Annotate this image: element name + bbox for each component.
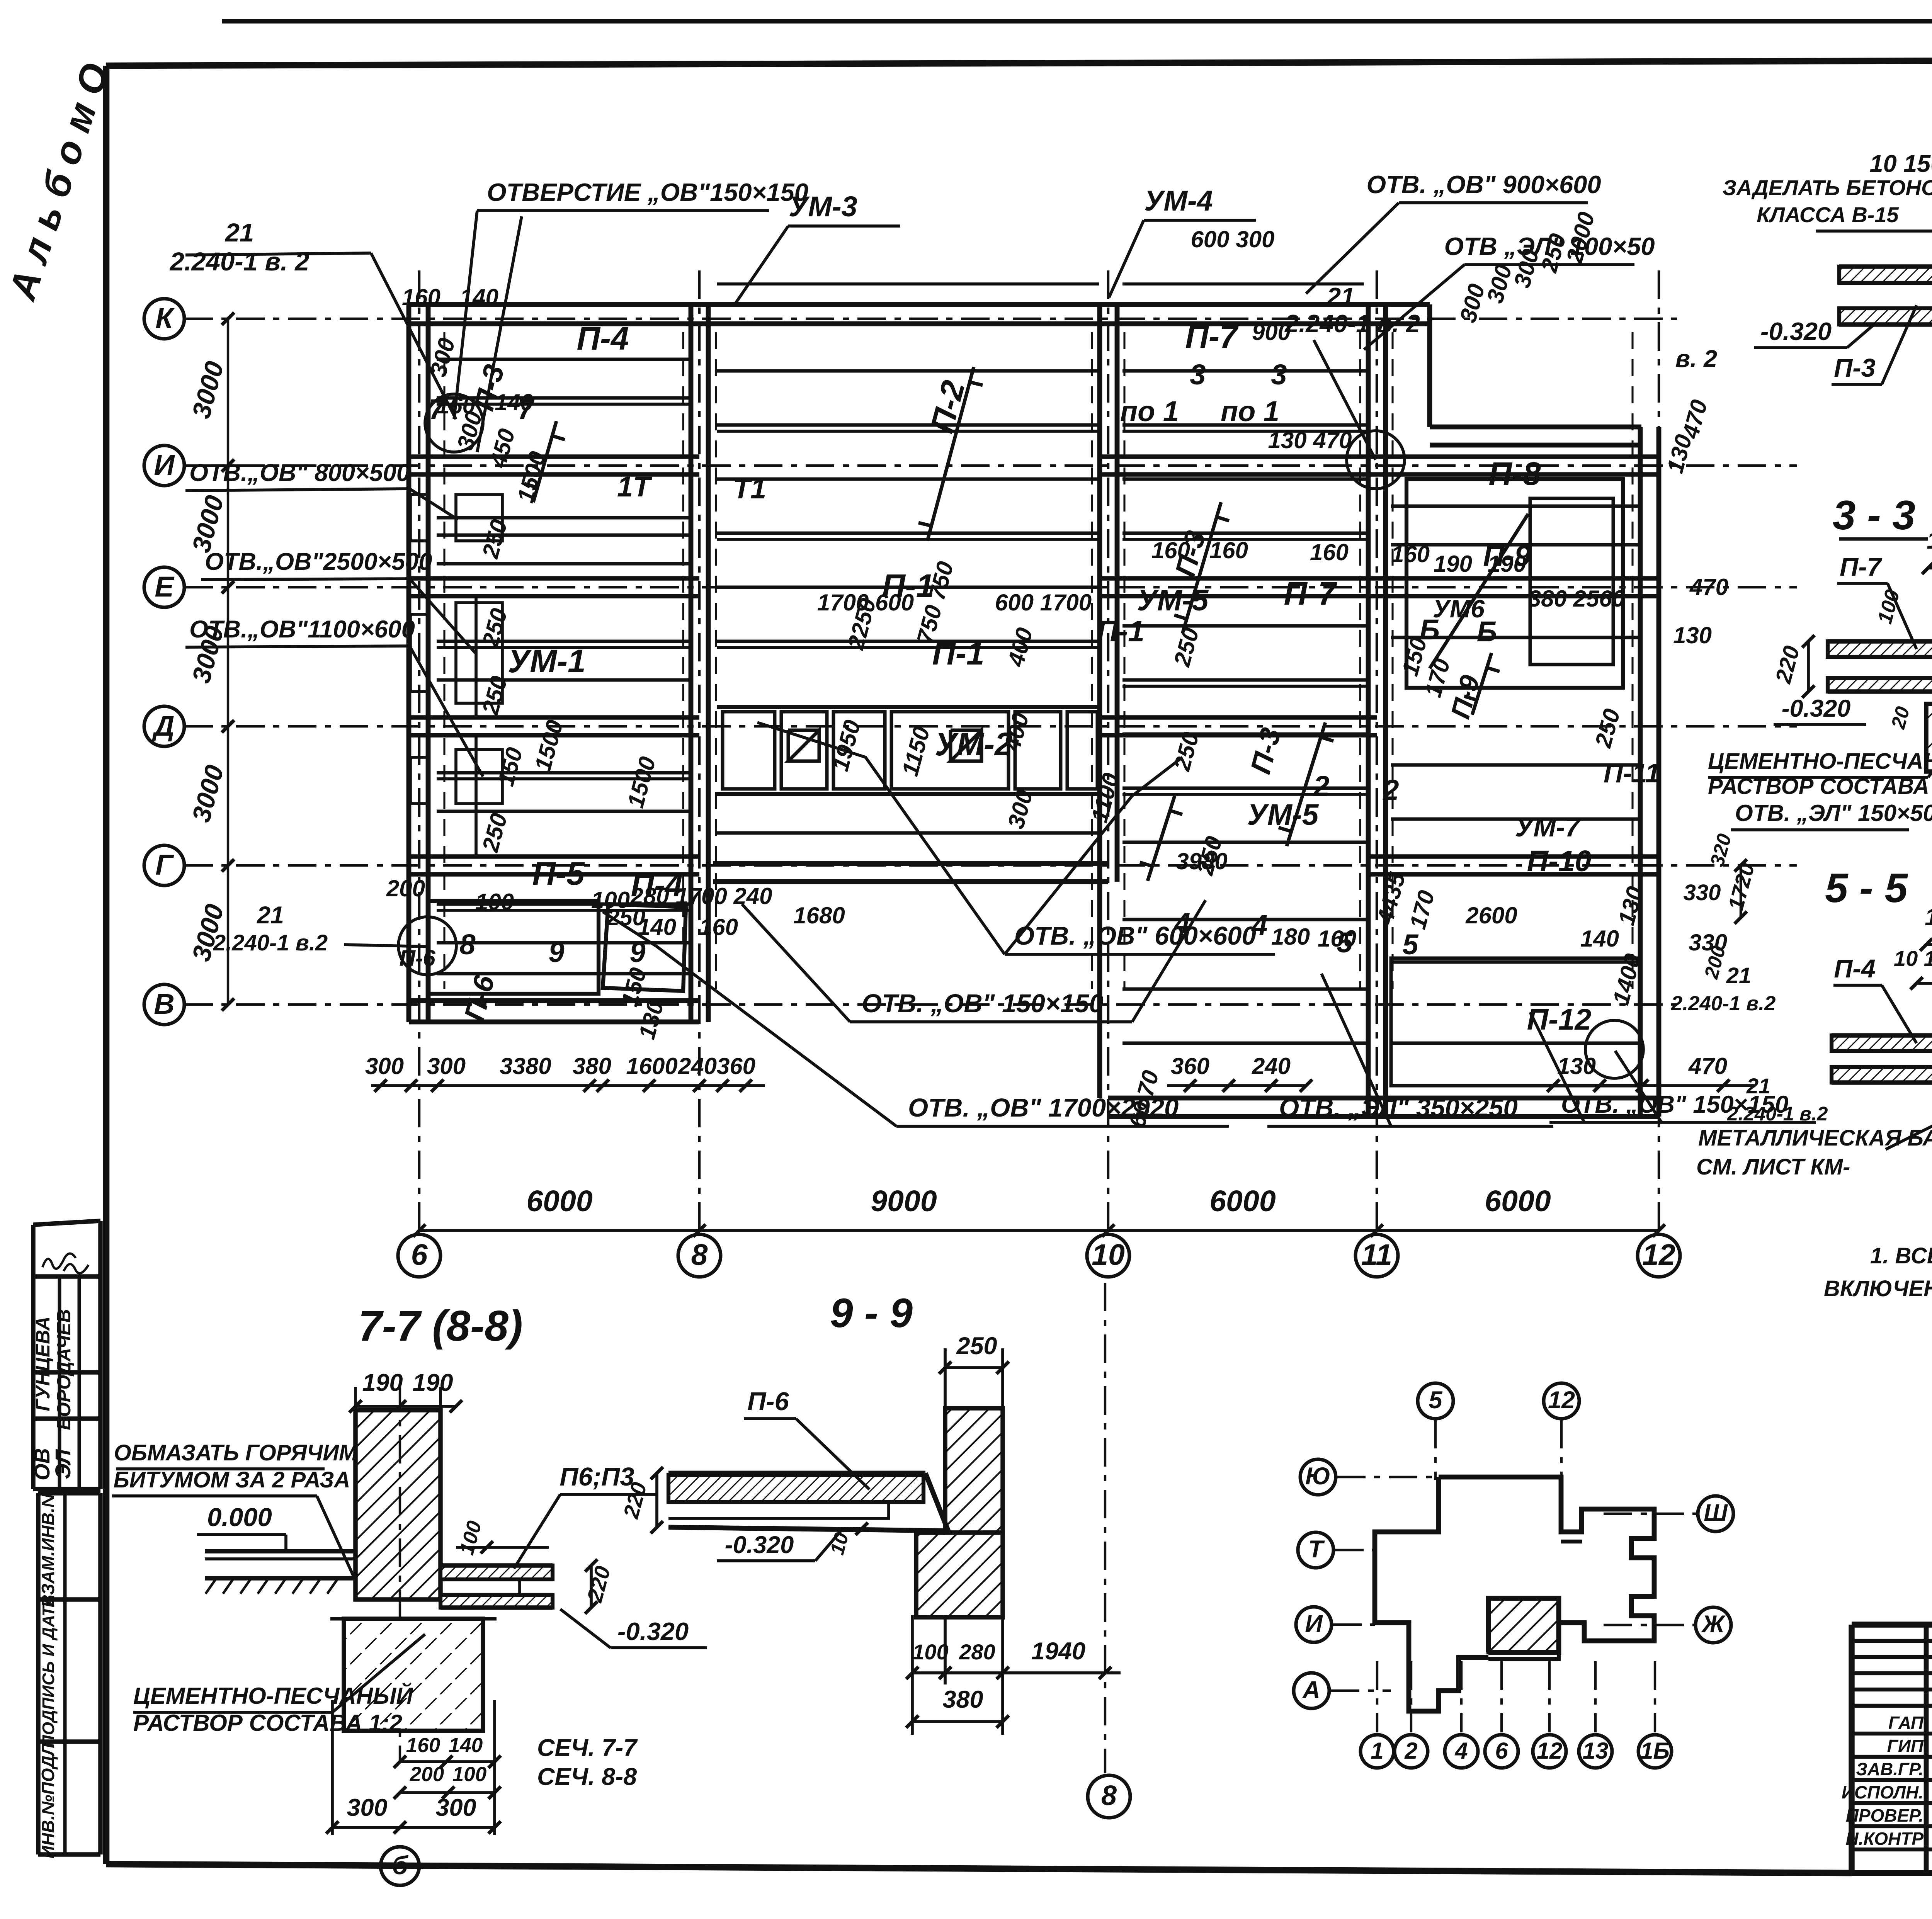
- svg-text:21: 21: [1326, 282, 1355, 311]
- svg-text:Д: Д: [151, 710, 174, 742]
- svg-text:5: 5: [1429, 1387, 1442, 1414]
- svg-text:9: 9: [548, 936, 564, 968]
- svg-text:7-7 (8-8): 7-7 (8-8): [358, 1302, 523, 1350]
- svg-text:160: 160: [1391, 541, 1430, 567]
- svg-text:ЭЛ: ЭЛ: [51, 1449, 75, 1479]
- svg-text:3: 3: [1271, 359, 1287, 391]
- svg-text:ОТВ. „ОВ" 150×150: ОТВ. „ОВ" 150×150: [862, 989, 1104, 1018]
- svg-text:140: 140: [449, 1734, 483, 1757]
- svg-text:УМ-4: УМ-4: [1144, 185, 1213, 217]
- svg-text:8: 8: [691, 1238, 708, 1271]
- svg-text:СЕЧ. 8-8: СЕЧ. 8-8: [537, 1763, 637, 1790]
- svg-text:21: 21: [257, 902, 284, 929]
- svg-text:ОТВ. „ЭЛ" 350×250: ОТВ. „ЭЛ" 350×250: [1279, 1093, 1518, 1122]
- svg-text:9: 9: [629, 936, 645, 968]
- svg-text:Ж: Ж: [1701, 1611, 1726, 1638]
- svg-text:8: 8: [1101, 1780, 1117, 1811]
- svg-text:3 - 3: 3 - 3: [1833, 492, 1915, 538]
- svg-text:П-1: П-1: [932, 635, 984, 671]
- svg-text:1940: 1940: [1031, 1638, 1085, 1665]
- svg-text:ПОДПИСЬ И ДАТА: ПОДПИСЬ И ДАТА: [39, 1594, 58, 1747]
- svg-text:100: 100: [475, 889, 514, 915]
- svg-text:ГИП: ГИП: [1887, 1736, 1924, 1756]
- svg-text:9000: 9000: [871, 1185, 937, 1218]
- svg-text:10 150 150 10: 10 150 150 10: [1894, 946, 1932, 971]
- svg-text:190: 190: [362, 1369, 403, 1396]
- svg-text:380 2560: 380 2560: [1528, 586, 1625, 612]
- svg-text:21: 21: [1746, 1074, 1770, 1098]
- svg-text:190 190: 190 190: [1927, 527, 1932, 554]
- svg-text:5: 5: [1402, 928, 1419, 960]
- svg-text:ОБМАЗАТЬ ГОРЯЧИМ: ОБМАЗАТЬ ГОРЯЧИМ: [114, 1440, 358, 1465]
- svg-text:2.240-1 в. 2: 2.240-1 в. 2: [1284, 309, 1420, 338]
- svg-text:6000: 6000: [1485, 1185, 1551, 1218]
- svg-text:1. ВСЕ ЭЛЕМЕНТЫ ЗАМАРКИРОВАН: 1. ВСЕ ЭЛЕМЕНТЫ ЗАМАРКИРОВАННЫЕ НА ДАННО…: [1870, 1243, 1932, 1268]
- svg-text:МЕТАЛЛИЧЕСКАЯ БАЛКА: МЕТАЛЛИЧЕСКАЯ БАЛКА: [1698, 1125, 1932, 1151]
- svg-text:ОТВ. „ОВ" 900×600: ОТВ. „ОВ" 900×600: [1366, 170, 1601, 199]
- svg-text:Б: Б: [1477, 615, 1497, 648]
- svg-text:190: 190: [412, 1369, 453, 1396]
- svg-text:ОТВЕРСТИЕ „ОВ"150×150: ОТВЕРСТИЕ „ОВ"150×150: [487, 178, 808, 206]
- svg-text:470: 470: [1689, 574, 1728, 600]
- svg-text:130: 130: [1673, 622, 1712, 648]
- svg-text:ОТВ.„ОВ" 800×500: ОТВ.„ОВ" 800×500: [189, 459, 410, 486]
- svg-text:10: 10: [1092, 1238, 1125, 1271]
- svg-text:П6;П3: П6;П3: [560, 1462, 634, 1491]
- svg-text:ОТВ. „ЭЛ" 150×50: ОТВ. „ЭЛ" 150×50: [1735, 800, 1932, 826]
- svg-text:160: 160: [1318, 926, 1356, 952]
- svg-text:Ю: Ю: [1305, 1463, 1331, 1490]
- svg-text:П-4: П-4: [1834, 954, 1876, 983]
- svg-text:2: 2: [1404, 1738, 1417, 1764]
- svg-text:Г: Г: [155, 849, 174, 881]
- svg-text:140: 140: [1580, 926, 1619, 952]
- svg-text:ПРОВЕР.: ПРОВЕР.: [1846, 1805, 1923, 1826]
- svg-text:6000: 6000: [526, 1185, 592, 1218]
- svg-text:П-7: П-7: [1185, 318, 1238, 355]
- svg-text:6: 6: [1495, 1738, 1508, 1764]
- svg-text:по 1: по 1: [1120, 395, 1179, 427]
- svg-text:12: 12: [1537, 1738, 1563, 1764]
- svg-text:ВЗАМ.ИНВ.№: ВЗАМ.ИНВ.№: [38, 1487, 58, 1607]
- svg-text:160: 160: [402, 284, 440, 310]
- svg-text:И: И: [1305, 1610, 1323, 1637]
- svg-text:А: А: [1302, 1676, 1320, 1703]
- svg-text:П-10: П-10: [1527, 845, 1592, 878]
- svg-text:2: 2: [1313, 770, 1329, 802]
- svg-text:200: 200: [410, 1763, 444, 1786]
- svg-text:2600: 2600: [1465, 903, 1517, 928]
- svg-text:240: 240: [1252, 1053, 1291, 1079]
- svg-text:0.000: 0.000: [207, 1503, 272, 1532]
- svg-text:УМ-3: УМ-3: [789, 190, 857, 223]
- svg-text:БОРОДАЧЕВ: БОРОДАЧЕВ: [54, 1309, 75, 1430]
- svg-text:УМ-5: УМ-5: [1137, 584, 1209, 617]
- svg-text:ИНВ.№ПОДЛ.: ИНВ.№ПОДЛ.: [38, 1739, 58, 1859]
- svg-text:1700 600: 1700 600: [817, 590, 914, 615]
- svg-text:БИТУМОМ ЗА 2 РАЗА: БИТУМОМ ЗА 2 РАЗА: [114, 1467, 350, 1492]
- svg-text:ЦЕМЕНТНО-ПЕСЧАНЫЙ: ЦЕМЕНТНО-ПЕСЧАНЫЙ: [133, 1683, 413, 1709]
- svg-text:ОТВ.„ОВ"2500×500: ОТВ.„ОВ"2500×500: [205, 548, 432, 575]
- svg-text:-0.320: -0.320: [725, 1531, 794, 1559]
- svg-text:190: 190: [1434, 551, 1472, 577]
- svg-text:ЗАДЕЛАТЬ БЕТОНОМ: ЗАДЕЛАТЬ БЕТОНОМ: [1723, 175, 1932, 200]
- svg-text:300: 300: [427, 1053, 466, 1079]
- svg-text:РАСТВОР СОСТАВА 1:2: РАСТВОР СОСТАВА 1:2: [133, 1710, 402, 1736]
- svg-text:600 1700: 600 1700: [995, 590, 1092, 615]
- svg-text:2: 2: [1382, 774, 1399, 806]
- svg-text:СЕЧ. 7-7: СЕЧ. 7-7: [537, 1734, 638, 1761]
- svg-text:П-7: П-7: [1840, 552, 1883, 581]
- svg-text:1Б: 1Б: [1640, 1738, 1670, 1764]
- svg-text:ОТВ.„ОВ"1100×600: ОТВ.„ОВ"1100×600: [189, 616, 415, 643]
- svg-text:П-7: П-7: [1284, 575, 1337, 612]
- svg-text:УМ-1: УМ-1: [508, 643, 586, 679]
- svg-text:4: 4: [1454, 1738, 1468, 1764]
- svg-text:КЛАССА В-15: КЛАССА В-15: [1757, 202, 1899, 227]
- svg-text:100: 100: [912, 1640, 948, 1664]
- svg-text:9 - 9: 9 - 9: [830, 1290, 913, 1336]
- svg-text:ГУНЦЕВА: ГУНЦЕВА: [32, 1316, 54, 1411]
- svg-text:1600: 1600: [626, 1053, 677, 1079]
- svg-text:ЗАВ.ГР.: ЗАВ.ГР.: [1856, 1759, 1923, 1779]
- svg-text:100: 100: [591, 887, 630, 913]
- svg-text:ВКЛЮЧЕНЫ В СПЕЦИФИКАЦИЮ НА: ВКЛЮЧЕНЫ В СПЕЦИФИКАЦИЮ НА ЛИСТЕ КЖО-31: [1824, 1276, 1932, 1301]
- svg-text:ОТВ. „ОВ" 1700×2920: ОТВ. „ОВ" 1700×2920: [908, 1093, 1179, 1122]
- svg-text:УМ-7: УМ-7: [1515, 812, 1581, 842]
- svg-text:ОТВ. „ОВ" 600×600: ОТВ. „ОВ" 600×600: [1014, 921, 1256, 950]
- svg-text:П-8: П-8: [1488, 456, 1541, 492]
- svg-text:в. 2: в. 2: [1675, 345, 1717, 372]
- svg-text:21: 21: [1726, 963, 1752, 988]
- svg-text:6: 6: [411, 1238, 428, 1271]
- svg-text:1680: 1680: [793, 903, 845, 928]
- svg-text:СМ. ЛИСТ КМ-: СМ. ЛИСТ КМ-: [1696, 1154, 1850, 1180]
- svg-text:П-3: П-3: [1834, 354, 1876, 382]
- svg-text:3980: 3980: [1176, 848, 1227, 874]
- svg-text:360: 360: [1171, 1053, 1209, 1079]
- svg-text:Ш: Ш: [1704, 1499, 1728, 1526]
- svg-text:П-6: П-6: [747, 1387, 789, 1416]
- svg-text:380: 380: [942, 1686, 983, 1713]
- svg-text:160: 160: [1209, 537, 1248, 563]
- svg-text:П-6: П-6: [399, 946, 435, 971]
- svg-text:Т: Т: [1308, 1536, 1325, 1563]
- svg-text:-0.320: -0.320: [1782, 695, 1851, 722]
- svg-text:13: 13: [1583, 1738, 1609, 1764]
- svg-text:Н.КОНТР: Н.КОНТР: [1846, 1829, 1924, 1849]
- svg-text:б: б: [392, 1851, 408, 1880]
- svg-text:К: К: [155, 302, 175, 334]
- svg-text:12: 12: [1548, 1387, 1575, 1414]
- svg-text:280: 280: [959, 1640, 995, 1664]
- svg-text:8: 8: [459, 928, 476, 960]
- svg-text:160: 160: [1310, 539, 1349, 565]
- svg-text:ИСПОЛН.: ИСПОЛН.: [1842, 1782, 1923, 1802]
- svg-text:600 300: 600 300: [1191, 226, 1275, 252]
- svg-text:190 190: 190 190: [1925, 904, 1932, 931]
- svg-text:330: 330: [1684, 880, 1721, 905]
- svg-text:ОТВ „ЭЛ" 100×50: ОТВ „ЭЛ" 100×50: [1444, 232, 1655, 260]
- svg-text:6000: 6000: [1209, 1185, 1276, 1218]
- svg-text:ГАП: ГАП: [1888, 1713, 1924, 1733]
- svg-text:200: 200: [386, 875, 425, 901]
- svg-text:И: И: [154, 449, 175, 481]
- svg-text:Е: Е: [155, 571, 175, 603]
- svg-text:380: 380: [573, 1053, 611, 1079]
- svg-text:5 - 5: 5 - 5: [1825, 865, 1908, 911]
- svg-text:Т1: Т1: [733, 473, 766, 505]
- svg-text:П-5: П-5: [532, 855, 585, 892]
- svg-text:10 150 150 25: 10 150 150 25: [1870, 150, 1932, 177]
- svg-text:12: 12: [1642, 1238, 1675, 1271]
- svg-text:300: 300: [435, 1794, 476, 1821]
- svg-text:280 1700 240: 280 1700 240: [630, 883, 772, 909]
- svg-text:УМ-5: УМ-5: [1247, 798, 1319, 831]
- svg-text:В: В: [154, 988, 174, 1020]
- svg-text:П-4: П-4: [577, 320, 629, 357]
- svg-text:100: 100: [452, 1763, 486, 1786]
- svg-text:2.240-1 в.2: 2.240-1 в.2: [213, 930, 328, 955]
- svg-text:П-11: П-11: [1604, 758, 1660, 788]
- svg-text:240: 240: [678, 1053, 717, 1079]
- svg-text:1Т: 1Т: [617, 471, 653, 503]
- svg-text:по 1: по 1: [1221, 395, 1279, 427]
- svg-text:ЦЕМЕНТНО-ПЕСЧАНЫЙ: ЦЕМЕНТНО-ПЕСЧАНЫЙ: [1708, 748, 1932, 774]
- svg-text:470: 470: [1688, 1053, 1727, 1079]
- svg-text:11: 11: [1361, 1238, 1392, 1271]
- svg-text:2.240-1 в.2: 2.240-1 в.2: [1727, 1103, 1828, 1125]
- svg-text:360: 360: [717, 1053, 755, 1079]
- svg-text:160: 160: [699, 914, 738, 940]
- svg-text:П-12: П-12: [1527, 1003, 1592, 1036]
- svg-text:2.240-1 в.2: 2.240-1 в.2: [1671, 992, 1776, 1015]
- svg-text:3380: 3380: [500, 1053, 551, 1079]
- svg-text:160: 160: [1151, 537, 1190, 563]
- svg-text:130 470: 130 470: [1268, 427, 1352, 453]
- svg-text:250: 250: [956, 1333, 997, 1360]
- svg-text:180: 180: [1271, 924, 1310, 950]
- svg-text:300: 300: [347, 1794, 387, 1821]
- svg-text:П-1: П-1: [1097, 615, 1145, 648]
- svg-text:2.240-1 в. 2: 2.240-1 в. 2: [169, 247, 310, 276]
- svg-text:1: 1: [1371, 1738, 1383, 1764]
- svg-text:160: 160: [406, 1734, 440, 1757]
- svg-text:21: 21: [224, 218, 254, 247]
- svg-text:140: 140: [495, 389, 533, 415]
- svg-text:-0.320: -0.320: [617, 1617, 689, 1645]
- svg-text:190: 190: [1488, 551, 1526, 577]
- svg-text:3: 3: [1190, 359, 1206, 391]
- svg-text:-0.320: -0.320: [1760, 317, 1832, 345]
- svg-text:300: 300: [365, 1053, 404, 1079]
